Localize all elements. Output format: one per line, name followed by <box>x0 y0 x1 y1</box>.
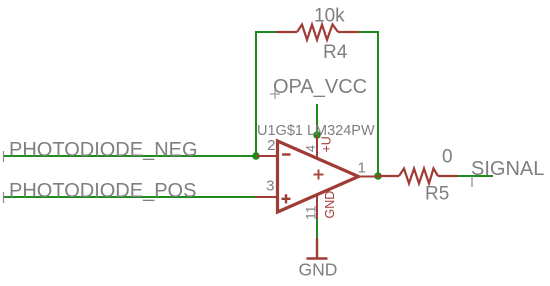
svg-text:+U: +U <box>320 136 334 152</box>
svg-text:GND: GND <box>323 191 337 219</box>
op-amp inverting input minus symbol <box>282 153 291 155</box>
resistor R4 <box>276 25 359 40</box>
op-amp pin 3 stub <box>255 196 278 198</box>
ground symbol GND bar <box>307 238 328 260</box>
junction dot at V+ pin <box>313 131 321 139</box>
net label SIGNAL tick <box>471 176 473 187</box>
svg-text:R5: R5 <box>425 184 449 205</box>
op-amp non-inverting input plus symbol <box>282 194 291 203</box>
svg-text:3: 3 <box>266 178 274 195</box>
wire feedback top-left segment <box>256 32 276 156</box>
wire feedback top-right segment <box>359 32 378 176</box>
wire output to SIGNAL <box>458 175 493 177</box>
svg-text:OPA_VCC: OPA_VCC <box>273 76 367 98</box>
op-amp origin cross <box>314 170 324 180</box>
supply symbol OPA_VCC origin cross <box>270 89 280 99</box>
svg-text:SIGNAL: SIGNAL <box>471 158 544 180</box>
svg-text:4: 4 <box>304 145 318 152</box>
wire net PHOTODIODE_NEG horizontal <box>3 155 256 157</box>
svg-text:0: 0 <box>442 147 453 168</box>
wire net PHOTODIODE_POS horizontal <box>3 196 255 198</box>
op-amp output pin 1 stub <box>359 176 379 178</box>
svg-text:R4: R4 <box>323 42 348 63</box>
svg-text:10k: 10k <box>314 6 345 27</box>
op-amp GND pin stub <box>316 195 318 219</box>
svg-text:2: 2 <box>267 137 275 154</box>
junction dot at output pin 1 <box>374 172 382 180</box>
svg-text:PHOTODIODE_NEG: PHOTODIODE_NEG <box>9 139 198 161</box>
svg-text:PHOTODIODE_POS: PHOTODIODE_POS <box>9 180 196 202</box>
wire OPA_VCC to op-amp V+ pin <box>316 104 318 135</box>
svg-text:1: 1 <box>358 160 366 177</box>
op-amp pin 2 stub <box>256 155 278 157</box>
net label PHOTODIODE_NEG tick <box>3 151 5 162</box>
net label PHOTODIODE_POS tick <box>3 192 5 203</box>
junction dot at pin 2 <box>252 152 260 160</box>
svg-text:11: 11 <box>303 205 319 220</box>
op-amp V+ pin stub <box>316 135 318 157</box>
wire op-amp GND pin to ground <box>316 218 318 238</box>
svg-text:GND: GND <box>299 260 338 280</box>
resistor R5 <box>378 169 458 184</box>
op-amp U1 triangle <box>278 141 359 212</box>
